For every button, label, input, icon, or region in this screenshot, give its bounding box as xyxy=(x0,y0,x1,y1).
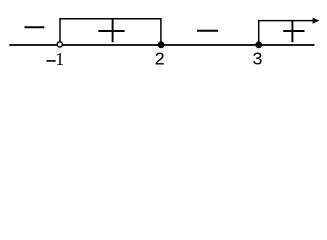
filled dot at 3 xyxy=(255,41,262,48)
svg-text:1: 1 xyxy=(55,49,64,69)
arrowhead on bracket xyxy=(313,18,320,24)
bracket over interval (3, infinity) with arrow xyxy=(259,21,313,45)
plus sign inside bracket (3, infinity) xyxy=(283,21,304,43)
plus sign inside box (-1,2) xyxy=(98,19,124,43)
bracket box over interval (-1,2) xyxy=(60,19,161,45)
minus sign over interval (2,3) xyxy=(197,30,218,32)
label -1 : minus stroke xyxy=(46,60,55,62)
svg-text:2: 2 xyxy=(154,51,165,71)
number line xyxy=(9,44,314,46)
open circle at -1 xyxy=(57,42,62,47)
filled dot at 2 xyxy=(158,41,165,48)
svg-text:3: 3 xyxy=(252,51,263,71)
minus sign over interval left of -1 xyxy=(25,26,45,28)
